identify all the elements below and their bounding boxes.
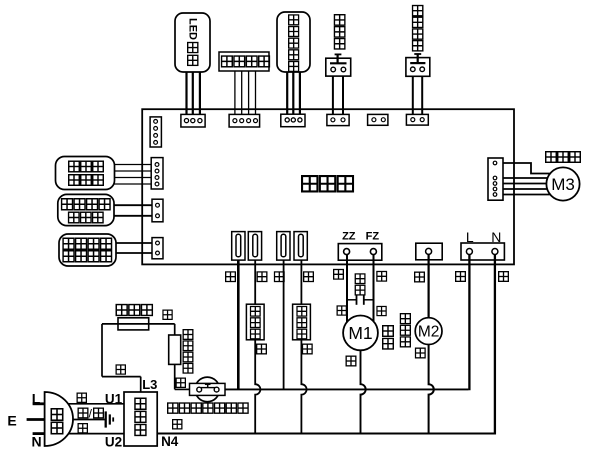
- svg-text:M3: M3: [551, 175, 575, 194]
- svg-text:M1: M1: [348, 323, 372, 343]
- svg-text:ZZ: ZZ: [342, 231, 356, 243]
- svg-text:N: N: [491, 229, 501, 245]
- svg-text:FZ: FZ: [366, 231, 380, 243]
- svg-text:N: N: [31, 434, 41, 450]
- svg-text:M2: M2: [418, 324, 440, 341]
- svg-text:E: E: [7, 412, 16, 428]
- svg-text:L: L: [466, 229, 474, 245]
- svg-text:/: /: [89, 407, 93, 421]
- svg-text:L: L: [32, 391, 41, 407]
- svg-text:U1: U1: [105, 391, 123, 406]
- svg-text:N4: N4: [161, 434, 179, 449]
- svg-text:L3: L3: [142, 377, 157, 392]
- svg-text:LED: LED: [187, 18, 199, 40]
- svg-text:U2: U2: [105, 434, 122, 449]
